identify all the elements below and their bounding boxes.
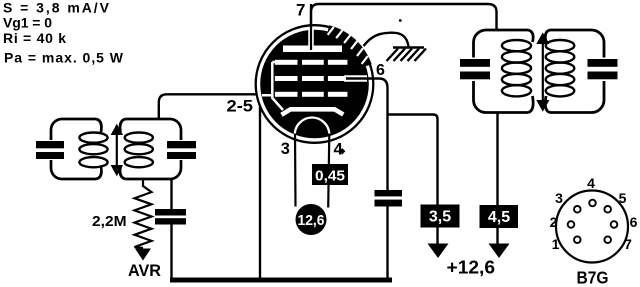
svg-text:7: 7 (296, 1, 305, 20)
svg-text:6: 6 (376, 62, 385, 79)
svg-text:0,45: 0,45 (315, 168, 345, 185)
svg-text:Ri = 40 k: Ri = 40 k (3, 30, 66, 46)
svg-text:6: 6 (630, 214, 638, 230)
svg-text:4,5: 4,5 (488, 209, 510, 226)
svg-text:12,6: 12,6 (298, 213, 325, 229)
svg-text:2,2M: 2,2M (92, 213, 127, 230)
svg-text:2: 2 (550, 214, 558, 230)
svg-text:2-5: 2-5 (227, 98, 254, 116)
svg-text:Pa = max. 0,5 W: Pa = max. 0,5 W (4, 50, 124, 66)
svg-text:B7G: B7G (577, 268, 609, 287)
svg-text:3,5: 3,5 (429, 208, 451, 225)
svg-text:7: 7 (624, 236, 632, 252)
svg-text:3: 3 (281, 140, 290, 158)
svg-text:+12,6: +12,6 (447, 258, 496, 278)
svg-text:1: 1 (552, 236, 560, 252)
svg-text:5: 5 (619, 190, 627, 206)
svg-text:4: 4 (587, 175, 595, 191)
svg-text:Vg1 = 0: Vg1 = 0 (3, 15, 52, 31)
svg-text:AVR: AVR (128, 262, 161, 280)
svg-text:3: 3 (555, 190, 563, 206)
